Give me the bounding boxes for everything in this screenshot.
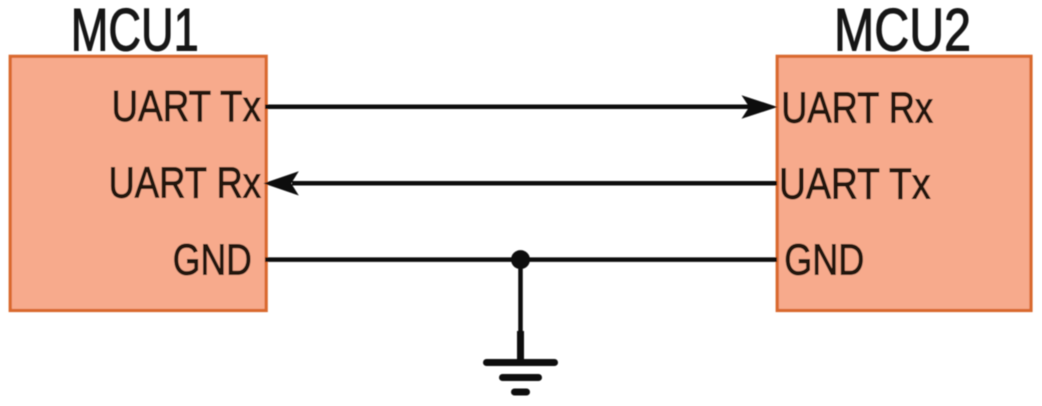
arrowhead left (into MCU1 UART Rx) [264,171,299,195]
junction dot [511,250,530,269]
svg-text:GND: GND [784,235,864,284]
svg-text:UART Tx: UART Tx [112,82,262,131]
svg-text:UART Rx: UART Rx [109,158,262,207]
svg-text:MCU1: MCU1 [71,0,199,64]
svg-text:UART Rx: UART Rx [781,83,933,132]
wire junction to ground [518,260,523,333]
svg-text:MCU2: MCU2 [834,0,971,64]
svg-text:GND: GND [173,235,252,284]
svg-text:UART Tx: UART Tx [779,160,931,209]
wire UART Tx to UART Rx [265,105,750,110]
MCU1 box U1 [10,56,266,310]
wire GND to GND [265,257,777,262]
wire UART Tx to UART Rx (return) [292,181,777,186]
ground symbol [487,363,555,393]
MCU2 box U2 [777,56,1031,310]
arrowhead right (into MCU2 UART Rx) [742,95,778,119]
